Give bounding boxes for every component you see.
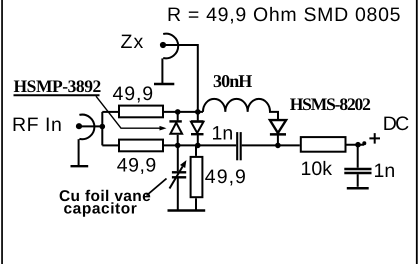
wire Zx to node — [163, 45, 198, 111]
resistor R bottom 49,9 body — [119, 140, 163, 152]
connector Zx dot — [160, 42, 166, 48]
svg-text:1n: 1n — [212, 123, 234, 145]
capacitor C3 lower wire — [357, 174, 359, 187]
wire RF In to bus — [79, 125, 102, 127]
arrowhead HSMP callout — [160, 126, 167, 131]
svg-text:RF In: RF In — [12, 114, 62, 136]
plus sign — [369, 133, 380, 144]
svg-text:R = 49,9 Ohm SMD 0805: R = 49,9 Ohm SMD 0805 — [167, 4, 401, 26]
terminal bar Zx — [154, 83, 174, 85]
svg-text:DC: DC — [383, 113, 409, 135]
capacitor C2 bottom plate — [172, 176, 186, 178]
underline HSMP-3892 — [14, 94, 100, 96]
terminal bar DC ground — [347, 187, 369, 190]
resistor R3 vertical 49,9: top stub — [195, 145, 197, 156]
diode D3 HSMS-8202 — [270, 120, 286, 133]
wire top rail — [164, 111, 203, 113]
svg-text:HSMP-3892: HSMP-3892 — [14, 76, 101, 96]
connector Zx arc — [163, 34, 178, 59]
wire 10k output — [347, 144, 365, 146]
svg-text:10k: 10k — [301, 158, 333, 180]
junction dot top rail left diode — [175, 109, 181, 115]
capacitor C3 1n bottom plate — [344, 172, 371, 174]
ground bar under vane cap and R3 — [168, 209, 206, 212]
wire bottom rail right — [242, 144, 300, 146]
svg-text:30nH: 30nH — [213, 71, 252, 91]
capacitor C3 1n top plate — [344, 168, 371, 170]
vane arrow diagonal — [170, 167, 183, 189]
svg-text:Zx: Zx — [121, 31, 145, 53]
wire left bus — [101, 112, 103, 145]
terminal bar RF In — [71, 165, 89, 167]
wire top resistor left stub — [102, 111, 118, 113]
wire Zx lower terminal — [161, 58, 163, 83]
border left — [1, 0, 3, 264]
callout line Cu foil vane — [147, 179, 167, 196]
svg-text:HSMS-8202: HSMS-8202 — [290, 94, 370, 114]
inductor L 30nH — [203, 99, 278, 120]
capacitor C1 series 1n left plate — [236, 132, 238, 160]
wire end dot DC — [362, 141, 366, 145]
wire down to output cap — [357, 145, 359, 168]
diode D1 up (HSMP-3892 left) — [177, 112, 179, 121]
capacitor C1 series 1n right plate — [240, 132, 242, 160]
svg-text:49,9: 49,9 — [113, 83, 155, 105]
border right — [416, 0, 418, 264]
capacitor C2 lower wire — [177, 178, 179, 209]
svg-text:capacitor: capacitor — [64, 201, 138, 218]
svg-text:1n: 1n — [374, 160, 396, 182]
junction dot RF bus — [100, 124, 106, 130]
diode D2 down (HSMP-3892 right) — [197, 112, 199, 121]
capacitor C2 vane: wire from rail — [177, 145, 179, 171]
connector RF In arc — [79, 115, 94, 140]
resistor R3 body — [191, 157, 203, 197]
wire bottom rail left — [164, 144, 236, 146]
junction dot HSMS diode bottom — [275, 143, 281, 149]
junction dot top rail right diode — [195, 109, 201, 115]
wire bottom resistor left stub — [102, 144, 118, 146]
junction dot DC node — [355, 142, 361, 148]
wire RF In lower terminal — [78, 139, 80, 165]
arrowhead vane arrow — [180, 160, 186, 168]
resistor R top 49,9 body — [119, 106, 163, 118]
callout arrow HSMP-3892 — [96, 96, 162, 128]
svg-text:49,9: 49,9 — [205, 166, 247, 188]
resistor R3 bottom stub — [195, 198, 197, 209]
connector RF In dot — [76, 123, 82, 129]
junction dot bottom rail right diode — [195, 143, 201, 149]
junction dot bottom rail left diode — [175, 143, 181, 149]
capacitor C2 top plate — [172, 171, 186, 173]
resistor R4 10k body — [301, 137, 346, 152]
svg-text:49,9: 49,9 — [117, 155, 157, 177]
